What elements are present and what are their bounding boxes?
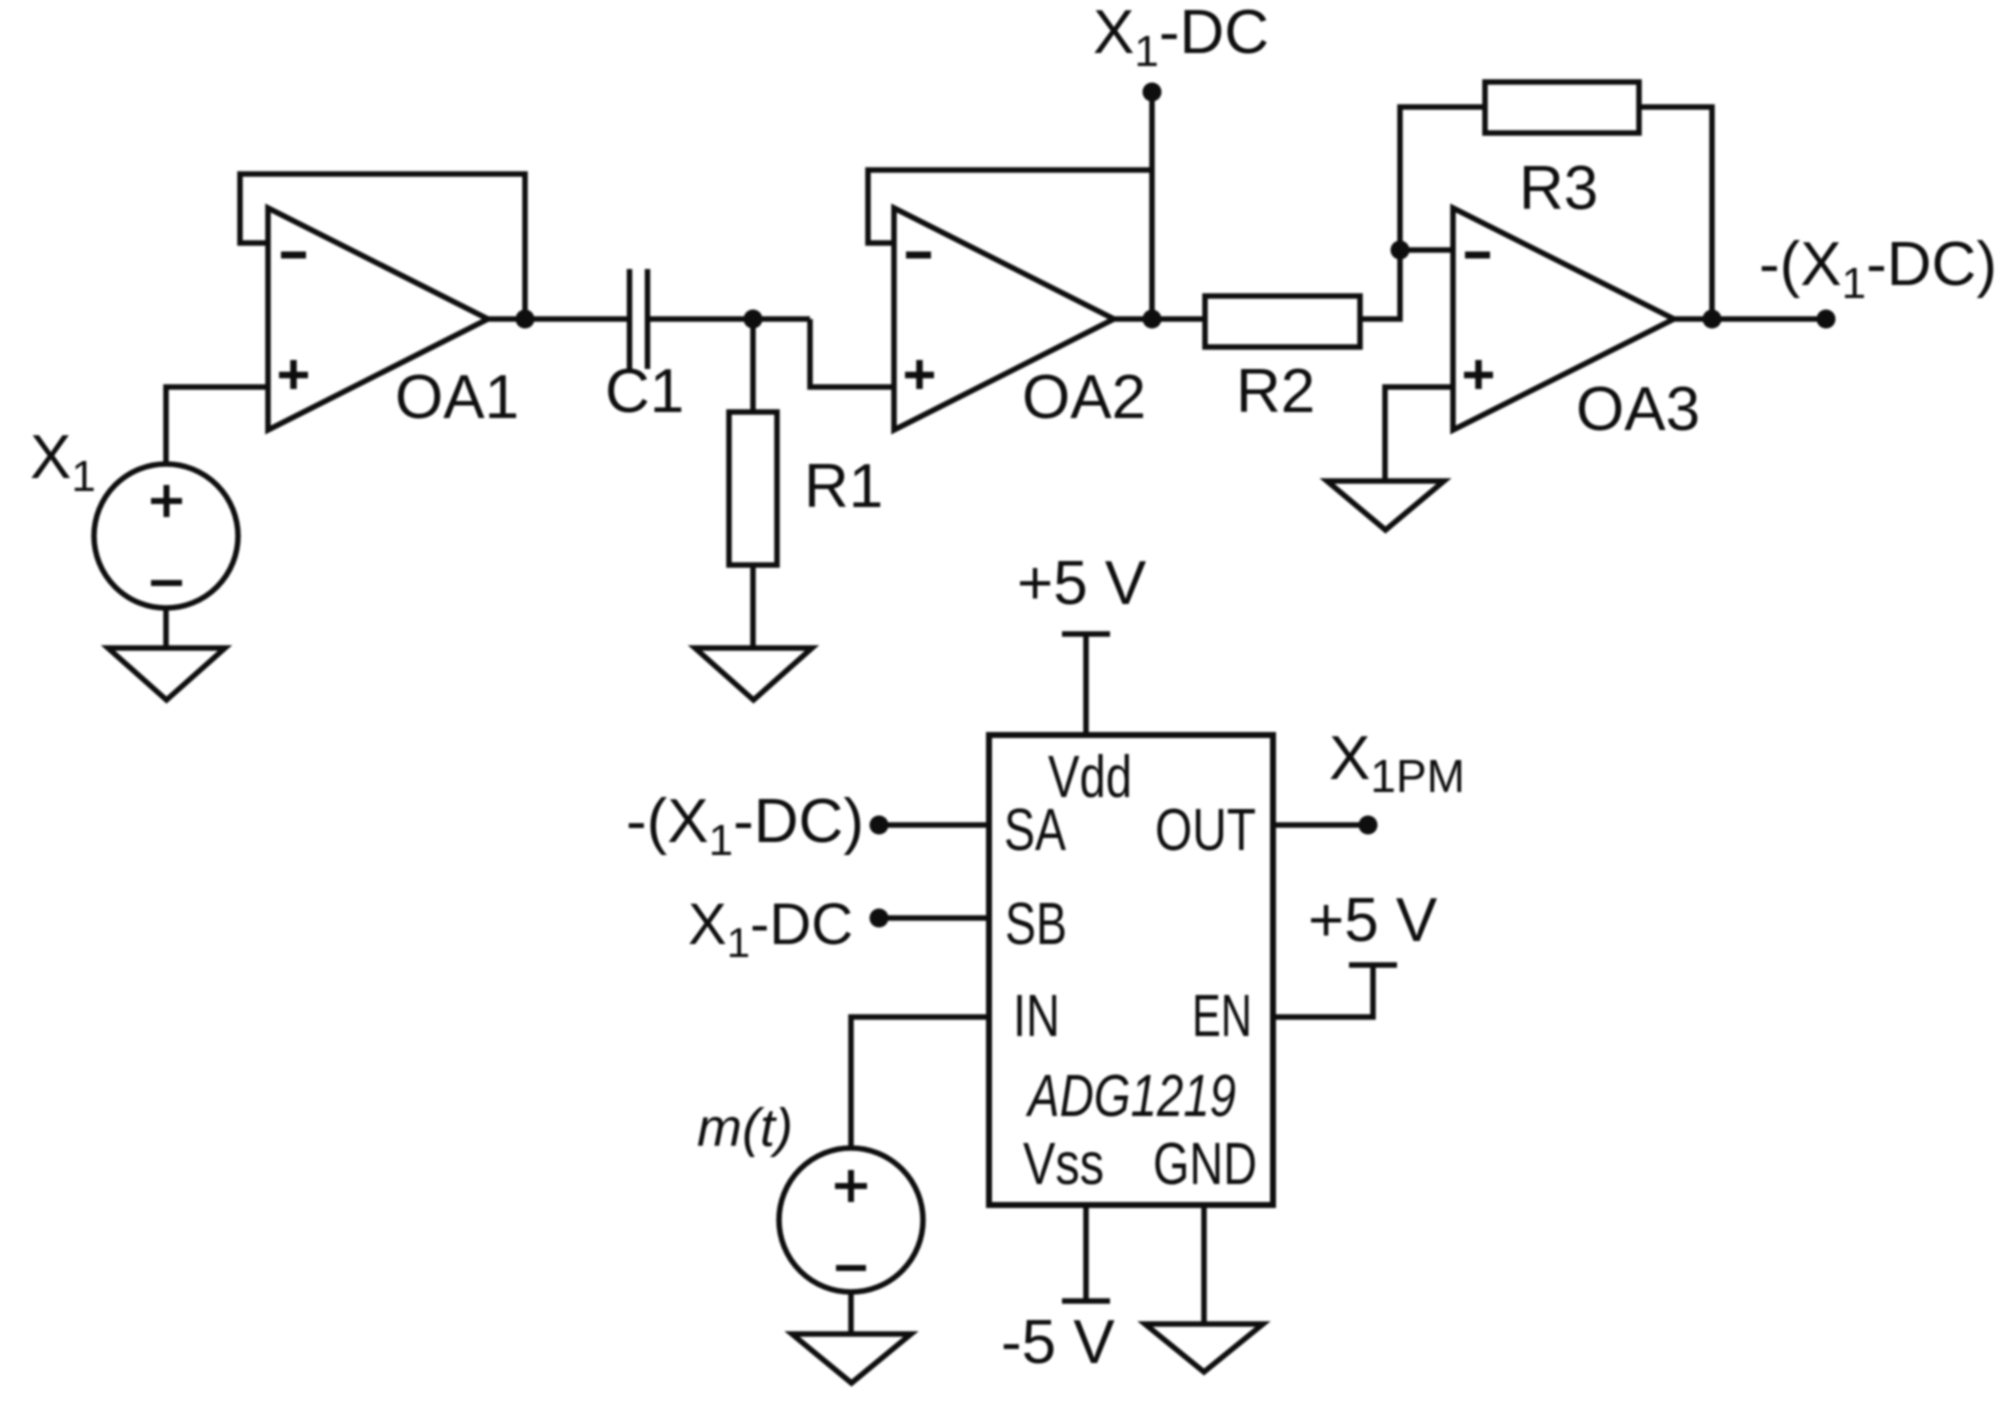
wire OA1 output xyxy=(488,316,627,322)
node OA3 output xyxy=(1703,310,1722,329)
node SA xyxy=(870,816,889,835)
wire OA2 feedback xyxy=(868,170,1152,243)
ground R1 xyxy=(695,648,812,700)
node X1-DC xyxy=(1143,83,1162,102)
svg-text:OA1: OA1 xyxy=(395,363,519,432)
resistor R1 xyxy=(729,412,777,565)
wire - input to OA3 xyxy=(1400,247,1453,253)
svg-text:+5 V: +5 V xyxy=(1308,886,1438,955)
node OA3 - input xyxy=(1391,241,1410,260)
wire OA3 output xyxy=(1674,316,1826,322)
wire R3 feedback left xyxy=(1400,107,1485,250)
wire Vss xyxy=(1083,1205,1089,1301)
svg-text:-5 V: -5 V xyxy=(1001,1308,1115,1377)
svg-text:Vss: Vss xyxy=(1023,1131,1104,1197)
svg-text:GND: GND xyxy=(1153,1131,1257,1197)
wire OA2 output xyxy=(1114,316,1205,322)
ground X1 xyxy=(108,648,225,700)
wire SA xyxy=(879,822,989,828)
svg-text:+5 V: +5 V xyxy=(1017,549,1147,618)
wire OUT xyxy=(1273,822,1368,828)
svg-text:X1-DC: X1-DC xyxy=(688,892,853,966)
svg-text:IN: IN xyxy=(1013,983,1060,1049)
svg-text:m(t): m(t) xyxy=(697,1098,793,1158)
svg-text:SB: SB xyxy=(1005,891,1067,957)
resistor R2 xyxy=(1205,296,1360,347)
wire SB xyxy=(879,915,989,921)
svg-text:OA2: OA2 xyxy=(1022,363,1146,432)
voltage source m(t) xyxy=(779,1148,923,1292)
voltage source X1 xyxy=(94,464,238,608)
svg-text:OUT: OUT xyxy=(1155,797,1256,863)
op-amp OA3 xyxy=(1453,208,1674,430)
svg-text:R1: R1 xyxy=(804,452,883,521)
wire Vdd xyxy=(1083,634,1089,735)
svg-text:-(X1-DC): -(X1-DC) xyxy=(626,787,864,865)
svg-text:EN: EN xyxy=(1192,983,1252,1049)
svg-text:C1: C1 xyxy=(605,357,684,426)
capacitor C1 xyxy=(630,269,648,369)
svg-text:OA3: OA3 xyxy=(1576,375,1700,444)
ground OA3 xyxy=(1327,481,1444,530)
svg-text:-(X1-DC): -(X1-DC) xyxy=(1759,230,1997,308)
node SB xyxy=(870,909,889,928)
svg-text:R3: R3 xyxy=(1519,154,1598,223)
wire X1 to OA1 + input xyxy=(166,387,268,464)
op-amp OA1 xyxy=(268,208,488,430)
wire GND xyxy=(1201,1205,1207,1324)
wire node X1-DC xyxy=(1149,92,1155,319)
wire EN to +5V xyxy=(1273,965,1373,1017)
svg-text:ADG1219: ADG1219 xyxy=(1026,1063,1236,1129)
resistor R3 xyxy=(1485,82,1639,133)
wire OA3 + input to ground xyxy=(1385,387,1453,481)
power bar +5V (Vdd) xyxy=(1062,631,1110,637)
op-amp OA2 xyxy=(894,208,1114,430)
wire C1 to node xyxy=(650,316,810,322)
node output terminal xyxy=(1817,310,1836,329)
wire OA1 feedback xyxy=(240,174,525,319)
wire node to OA2 + input xyxy=(810,319,894,387)
IC U1 ADG1219 xyxy=(989,735,1273,1205)
wire R2 to OA3 - input xyxy=(1360,250,1400,319)
wire R1 to ground xyxy=(750,565,756,648)
wire node to R1 xyxy=(750,319,756,412)
node OA1 output xyxy=(516,310,535,329)
svg-text:SA: SA xyxy=(1004,797,1066,863)
node X1PM xyxy=(1359,816,1378,835)
wire m(t) to ground xyxy=(848,1292,854,1334)
svg-text:X1-DC: X1-DC xyxy=(1093,0,1269,76)
ground GND xyxy=(1145,1324,1263,1372)
wire IN xyxy=(851,1017,989,1148)
node junction after C1 xyxy=(744,310,763,329)
node OA2 output xyxy=(1143,310,1162,329)
wire R3 feedback right xyxy=(1639,107,1712,319)
power bar +5V (EN) xyxy=(1349,962,1397,968)
wire X1 to ground xyxy=(163,608,169,648)
svg-text:R2: R2 xyxy=(1236,357,1315,426)
power bar -5V (Vss) xyxy=(1062,1298,1110,1304)
ground m(t) xyxy=(792,1334,911,1383)
